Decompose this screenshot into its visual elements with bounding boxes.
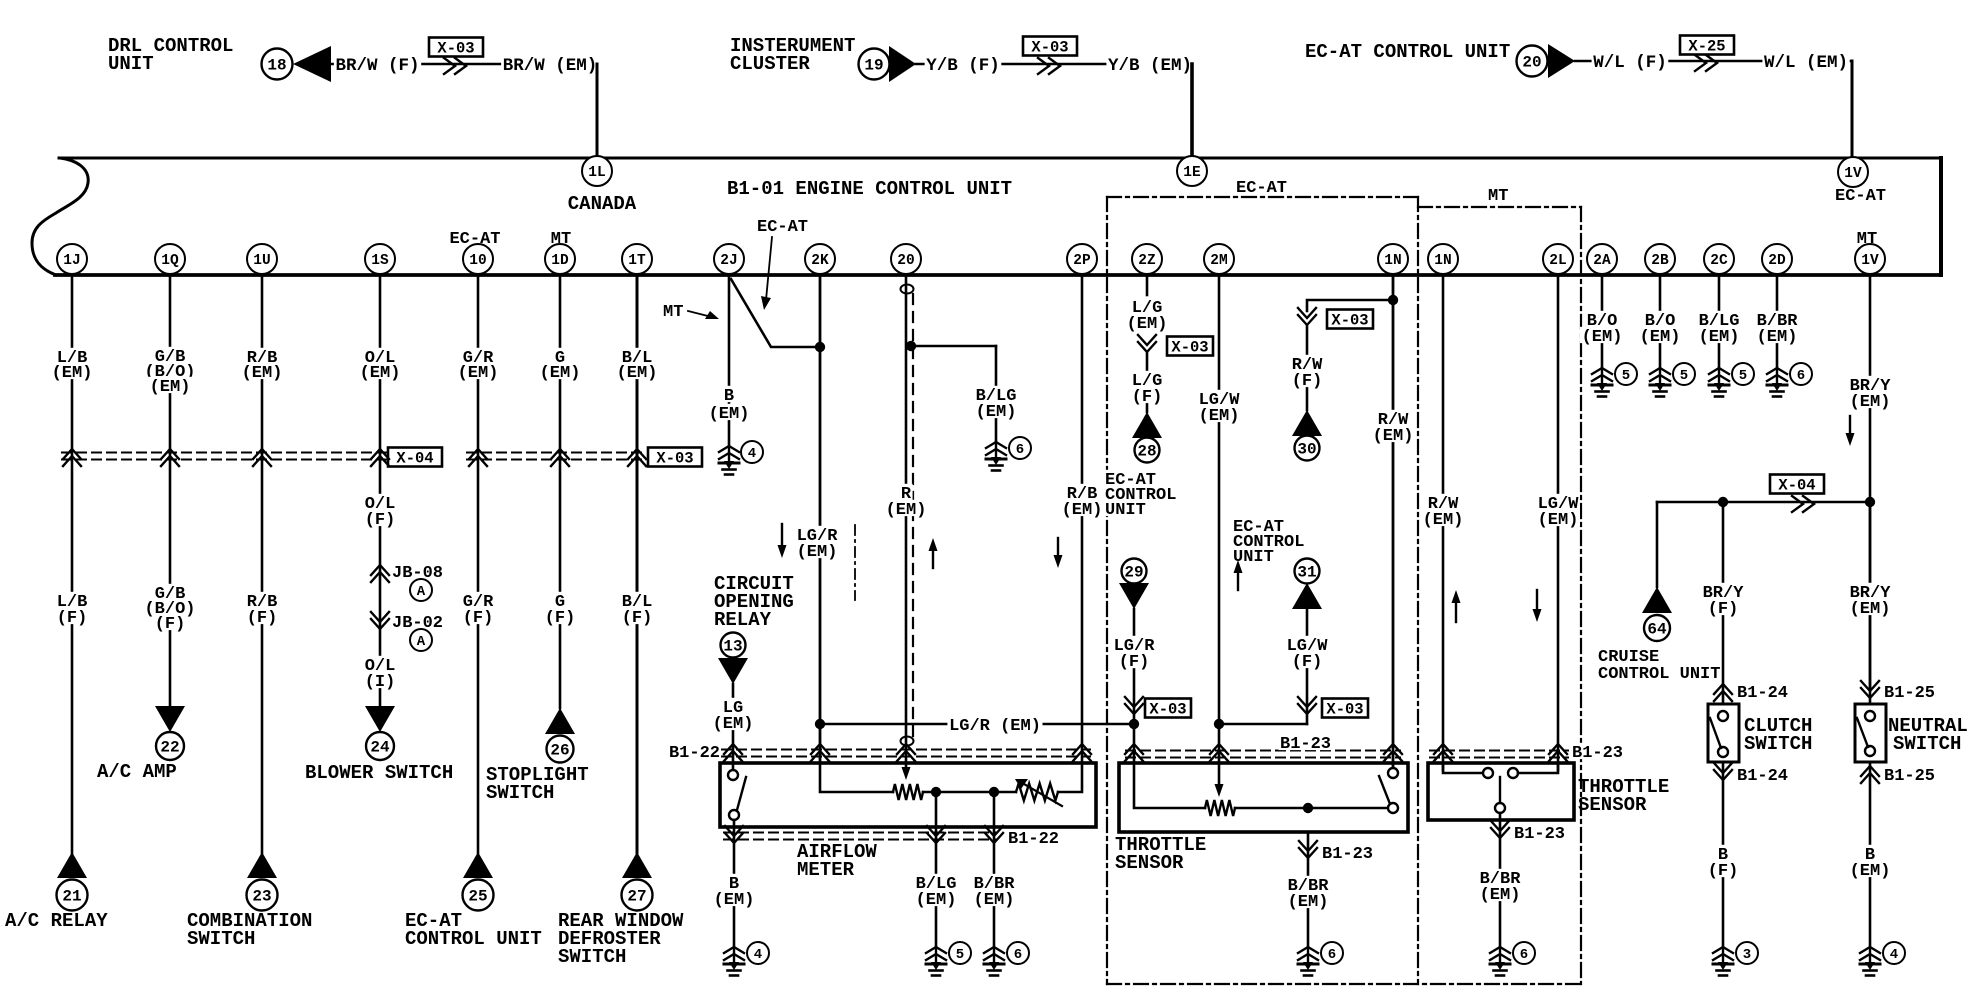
svg-text:(EM): (EM)	[360, 364, 401, 383]
label LG/W (F)	[1285, 636, 1329, 652]
crossing chevron LG/R at X-03	[1125, 697, 1143, 714]
crossing chevron LG at B1-22	[724, 744, 742, 761]
label O/L (F)	[363, 494, 397, 510]
arrowhead to rear window defroster switch (up triangle)	[622, 852, 652, 878]
label R (EM) on wire 20	[899, 484, 912, 500]
wire B/BR below throttle sensor	[1307, 832, 1310, 947]
connector circle 19	[859, 49, 890, 80]
svg-text:B1-23: B1-23	[1280, 735, 1331, 754]
wire R/W (F) segment	[1306, 325, 1309, 410]
arrowhead of wire R pointing at resistor	[902, 767, 911, 780]
svg-text:MT: MT	[1857, 230, 1877, 249]
band right edge	[1939, 158, 1943, 275]
svg-text:Y/B (EM): Y/B (EM)	[1108, 56, 1192, 76]
svg-text:2A: 2A	[1593, 253, 1611, 269]
throttle sensor resistor	[1205, 800, 1235, 816]
ground ref circle 4 (2J)	[741, 441, 763, 463]
connector circle 1L	[582, 156, 612, 186]
connector crossing dashed line B1-22 (upper)	[722, 750, 1090, 757]
label LG/W (EM) on 2M wire	[1197, 390, 1241, 406]
connector circle 1T at x=637	[622, 244, 652, 274]
svg-text:B1-23: B1-23	[1572, 744, 1623, 763]
connector circle 2B at x=1660	[1645, 244, 1675, 274]
connector circle 1Q at x=170	[155, 244, 185, 274]
label W/L (F)	[1592, 52, 1669, 69]
EC-AT region dash-dot box	[1107, 197, 1581, 984]
crossing chevron LG/R at B1-23	[1125, 744, 1143, 761]
label G/R (F)	[461, 592, 495, 608]
crossing chevron at B1-24 (above clutch)	[1714, 684, 1732, 701]
label B (F)	[1716, 845, 1729, 861]
connector circle 2C at x=1719	[1704, 244, 1734, 274]
svg-text:(EM): (EM)	[1288, 893, 1329, 912]
connector circle 2L at x=1558	[1543, 244, 1573, 274]
wire LG to airflow meter switch	[732, 684, 735, 770]
ground ref circle 6 (throttle EC-AT)	[1321, 942, 1343, 964]
label B/L (F)	[620, 592, 654, 608]
connector circle 1N at x=1393	[1378, 244, 1408, 274]
wire below neutral switch	[1869, 762, 1872, 947]
label O/L (I)	[363, 656, 397, 672]
svg-text:20: 20	[1522, 54, 1541, 72]
arrowhead to EC-AT control unit (up triangle, 28)	[1132, 412, 1162, 438]
wire L/G (F) segment	[1146, 352, 1149, 412]
connector circle 1V at x=1870	[1855, 244, 1885, 274]
svg-text:(F): (F)	[1708, 600, 1739, 619]
svg-text:(EM): (EM)	[1423, 511, 1464, 530]
ground symbol (B/LG)	[986, 442, 1006, 471]
direction arrow down (LG/R)	[778, 524, 787, 558]
label LG/R (F)	[1112, 636, 1156, 652]
wire B (MT) from 2J to ground	[728, 275, 731, 446]
connector circle 2M at x=1219	[1204, 244, 1234, 274]
wire W/L from EC-AT control unit to ECU	[1575, 60, 1852, 63]
inline connector chevrons X-04 (right)	[1792, 496, 1814, 512]
svg-text:(F): (F)	[1292, 653, 1323, 672]
svg-text:CONTROL UNIT: CONTROL UNIT	[1598, 665, 1720, 684]
connector circle 20 (EC-AT control unit)	[1517, 46, 1548, 77]
component circle 26	[547, 736, 574, 763]
svg-text:MT: MT	[663, 303, 683, 322]
airflow meter internal wire to 2P	[1058, 764, 1082, 792]
ground symbol (B airflow)	[724, 947, 744, 976]
svg-text:1E: 1E	[1183, 165, 1201, 181]
svg-text:A/C AMP: A/C AMP	[97, 761, 177, 783]
junction dot X-04 tap on 1V wire	[1865, 497, 1875, 507]
crossing chevron at B1-25 (above neutral)	[1861, 681, 1879, 698]
component circle 25	[463, 880, 494, 911]
svg-text:(F): (F)	[1292, 372, 1323, 391]
svg-text:(EM): (EM)	[242, 364, 283, 383]
svg-text:EC-AT: EC-AT	[757, 218, 808, 237]
wire G/R from 10	[477, 275, 480, 853]
svg-text:EC-AT: EC-AT	[1236, 179, 1287, 198]
svg-text:2J: 2J	[720, 253, 737, 269]
svg-text:6: 6	[1520, 947, 1528, 963]
arrowhead to cruise control unit (up triangle)	[1642, 587, 1672, 613]
label MT on region box	[1487, 186, 1511, 202]
MT throttle sensor internal wires and contacts	[1443, 763, 1483, 773]
ground symbol at x=1602	[1592, 368, 1612, 397]
svg-text:2L: 2L	[1549, 253, 1566, 269]
svg-text:X-04: X-04	[1778, 477, 1815, 495]
arrowhead to 31 (up triangle)	[1292, 583, 1322, 609]
ground symbol (B/BR airflow)	[984, 947, 1004, 976]
svg-text:64: 64	[1647, 621, 1667, 639]
component circle 21	[57, 880, 88, 911]
component circle 31	[1295, 559, 1320, 584]
svg-text:CONTROL UNIT: CONTROL UNIT	[405, 928, 542, 950]
svg-text:X-03: X-03	[1149, 701, 1186, 719]
junction dot B/BR tap	[989, 787, 999, 797]
svg-text:2Z: 2Z	[1138, 253, 1156, 269]
direction arrow up (R)	[929, 538, 938, 568]
neutral switch box	[1855, 704, 1886, 762]
svg-text:5: 5	[956, 947, 964, 963]
wire R/W (F) branch	[1307, 300, 1393, 311]
svg-text:25: 25	[468, 888, 487, 906]
ground ref circle 6 (B/LG)	[1009, 437, 1031, 459]
svg-text:X-04: X-04	[396, 450, 433, 468]
label G (F)	[553, 592, 566, 608]
crossing chevron 1T at X-03	[628, 449, 646, 466]
label LG (EM)	[721, 698, 745, 714]
wire O/L from 1S	[379, 275, 382, 706]
svg-text:4: 4	[748, 446, 756, 462]
svg-text:(EM): (EM)	[1373, 427, 1414, 446]
label B1-23 (EC-AT upper)	[1279, 734, 1333, 750]
svg-text:METER: METER	[797, 859, 855, 881]
svg-text:CLUSTER: CLUSTER	[730, 53, 810, 75]
svg-text:EC-AT: EC-AT	[449, 230, 500, 249]
svg-text:(EM): (EM)	[886, 501, 927, 520]
clutch switch box	[1708, 704, 1739, 762]
label G (EM)	[553, 348, 566, 364]
label LG/W (EM) on 2L wire	[1536, 494, 1580, 510]
crossing chevron 1N at B1-23	[1384, 744, 1402, 761]
neutral switch contacts and blade	[1865, 711, 1875, 721]
svg-text:(F): (F)	[155, 615, 186, 634]
component circle 27	[622, 880, 653, 911]
connector X-03 box (cluster)	[1023, 37, 1077, 57]
airflow meter internal wire right of resistor	[923, 791, 1016, 794]
direction arrow down (1V)	[1846, 416, 1855, 446]
crossing chevron B at lower B1-22	[725, 826, 743, 843]
svg-text:6: 6	[1014, 947, 1022, 963]
harness band B1-01 engine control unit outline	[32, 158, 88, 275]
svg-text:BR/W (EM): BR/W (EM)	[503, 56, 598, 76]
horizontal wire BR/Y with X-04	[1657, 501, 1870, 504]
svg-text:5: 5	[1680, 368, 1688, 384]
throttle sensor internal wire right of resistor	[1235, 807, 1388, 810]
ground ref circle 6 (B/BR airflow)	[1007, 942, 1029, 964]
label BR/Y (EM) upper	[1848, 376, 1892, 392]
direction arrow up (2M)	[1234, 560, 1243, 590]
label Y/B (EM)	[1106, 55, 1193, 72]
wire below clutch switch	[1722, 762, 1725, 947]
wire EC-AT diagonal branch from 2J	[731, 279, 820, 347]
svg-text:MT: MT	[551, 230, 571, 249]
connector circle 2D at x=1777	[1762, 244, 1792, 274]
svg-text:5: 5	[1739, 368, 1747, 384]
crossing chevron B/LG at lower B1-22	[927, 826, 945, 843]
label B (EM) below airflow meter	[727, 874, 740, 890]
junction dot BR/Y (F) tap	[1718, 497, 1728, 507]
airflow meter internal wire from 2K	[820, 763, 893, 792]
connector circle 2P at x=1082	[1067, 244, 1097, 274]
svg-text:SENSOR: SENSOR	[1115, 852, 1184, 874]
label L/B (EM)	[55, 348, 89, 364]
svg-text:SENSOR: SENSOR	[1578, 794, 1647, 816]
svg-text:B1-24: B1-24	[1737, 684, 1788, 703]
connector crossing dashed line B1-23 (MT)	[1430, 751, 1568, 758]
junction dot R/W branch on 1N wire	[1388, 295, 1398, 305]
connector X-04 box (right)	[1770, 475, 1824, 495]
arrowhead of wire LG/W pointing at resistor	[1215, 784, 1224, 797]
arrowhead to A/C amp (down triangle)	[155, 706, 185, 732]
crossing chevron 1J at X-04	[63, 449, 81, 466]
crossing chevron 10 at X-03	[469, 449, 487, 466]
svg-text:1T: 1T	[628, 253, 646, 269]
svg-text:(EM): (EM)	[150, 378, 191, 397]
svg-text:1L: 1L	[588, 165, 605, 181]
svg-text:B1-22: B1-22	[669, 744, 720, 763]
svg-text:4: 4	[754, 947, 762, 963]
label LG/R (EM) on 2K wire	[795, 526, 839, 542]
connector circle 2Z at x=1147	[1132, 244, 1162, 274]
wire B/O from connector at x=1602	[1601, 275, 1604, 368]
crossing chevron B/BR at lower B1-22	[985, 826, 1003, 843]
svg-text:B1-01 ENGINE CONTROL UNIT: B1-01 ENGINE CONTROL UNIT	[727, 178, 1012, 200]
label R/B (EM)	[245, 348, 279, 364]
wire G from 1D	[559, 275, 562, 708]
ground ref circle 6 at x=1777	[1790, 363, 1812, 385]
label R/W (EM) on 1N wire	[1376, 410, 1410, 426]
svg-text:(EM): (EM)	[1699, 328, 1740, 347]
connector crossing dashed line X-03 (left)	[467, 453, 647, 460]
variable resistor arrow	[1015, 779, 1062, 806]
svg-text:30: 30	[1297, 441, 1316, 459]
svg-text:13: 13	[723, 638, 742, 656]
svg-text:(EM): (EM)	[1480, 886, 1521, 905]
svg-text:X-03: X-03	[437, 40, 474, 58]
junction dot B/LG tap	[931, 787, 941, 797]
wire B/LG from connector at x=1719	[1718, 275, 1721, 368]
svg-text:(F): (F)	[545, 609, 576, 628]
wire to B/LG ground	[911, 345, 996, 348]
junction dot LG/R (EM) tap	[815, 719, 825, 729]
ground ref circle 5 at x=1719	[1732, 363, 1754, 385]
crossing chevron 20 at B1-22	[897, 744, 915, 761]
wire L/B from 1J	[71, 275, 74, 853]
connector X-03 box (LG/W)	[1322, 699, 1368, 719]
arrowhead from circuit opening relay (down triangle)	[718, 658, 748, 684]
ground symbol at x=1777	[1767, 368, 1787, 397]
arrowhead to 30 (up triangle)	[1292, 410, 1322, 436]
label B/LG (EM)	[974, 386, 1018, 402]
label R/B (EM) on wire 2P	[1065, 484, 1099, 500]
ground ref circle 3 (clutch)	[1736, 942, 1758, 964]
arrowhead to stoplight switch (up triangle)	[545, 708, 575, 734]
airflow meter switch contacts and blade	[728, 770, 738, 780]
ground symbol (2J)	[719, 446, 739, 475]
svg-text:19: 19	[864, 57, 883, 75]
wire LG/W (F) from 31	[1306, 609, 1309, 724]
airflow meter variable resistor	[1016, 784, 1058, 801]
wire R/W from 1N into throttle sensor switch	[1392, 275, 1395, 770]
horizontal wire LG/R (EM)	[820, 723, 1134, 726]
svg-text:28: 28	[1137, 443, 1156, 461]
label G/B (B/O) (F)	[153, 584, 187, 600]
label G/B (B/O) (EM)	[153, 347, 187, 363]
svg-text:(F): (F)	[1708, 862, 1739, 881]
svg-text:1U: 1U	[253, 253, 270, 269]
svg-text:6: 6	[1797, 368, 1805, 384]
svg-text:X-03: X-03	[1331, 312, 1368, 330]
svg-text:1N: 1N	[1384, 253, 1401, 269]
connector circle 1S at x=380	[365, 244, 395, 274]
svg-text:(EM): (EM)	[1850, 600, 1891, 619]
label BR/W (EM)	[501, 55, 599, 72]
wire B/L from 1T	[636, 275, 639, 853]
label L/B (F)	[55, 592, 89, 608]
ground ref circle 4 (neutral)	[1883, 942, 1905, 964]
svg-text:5: 5	[1622, 368, 1630, 384]
throttle sensor internal wire from LG/R	[1134, 763, 1205, 808]
connector crossing dashed line B1-22 (lower)	[724, 833, 997, 840]
arrowhead to A/C relay (up triangle)	[57, 852, 87, 878]
circled A (JB-02)	[410, 629, 432, 651]
junction dot LG/W join on 2M wire	[1214, 719, 1224, 729]
connector X-03 box (2Z)	[1167, 337, 1213, 357]
wire G/B from 1Q	[169, 275, 172, 706]
connector circle 1N at x=1443	[1428, 244, 1458, 274]
crossing chevron 1Q at X-04	[161, 449, 179, 466]
svg-text:(F): (F)	[463, 609, 494, 628]
svg-text:(EM): (EM)	[713, 715, 754, 734]
label EC-AT CONTROL UNIT (mid left)	[1104, 470, 1158, 486]
svg-text:24: 24	[370, 739, 390, 757]
svg-text:(F): (F)	[1119, 653, 1150, 672]
wire R/B from 2P into airflow meter	[1081, 275, 1084, 763]
svg-text:(EM): (EM)	[916, 891, 957, 910]
svg-text:X-03: X-03	[1326, 701, 1363, 719]
svg-text:MT: MT	[1488, 187, 1508, 206]
svg-text:A: A	[417, 634, 426, 650]
svg-text:B1-22: B1-22	[1008, 830, 1059, 849]
arrowhead to EC-AT control unit (up triangle)	[463, 852, 493, 878]
connector circle 2A at x=1602	[1587, 244, 1617, 274]
label B/BR (EM) at x=1777	[1755, 311, 1799, 327]
junction dot B/BR tap (throttle)	[1303, 803, 1313, 813]
connector circle 2K at x=820	[805, 244, 835, 274]
ground symbol (throttle MT)	[1490, 947, 1510, 976]
label BR/W (F)	[334, 55, 421, 72]
wire B below airflow meter switch	[733, 820, 736, 947]
inline connector chevrons (cluster wire)	[1038, 58, 1060, 74]
svg-text:1V: 1V	[1861, 253, 1879, 269]
svg-text:3: 3	[1743, 947, 1751, 963]
label B (EM)	[1863, 845, 1876, 861]
svg-text:(EM): (EM)	[1582, 328, 1623, 347]
ground symbol (throttle EC-AT)	[1298, 947, 1318, 976]
svg-text:UNIT: UNIT	[1105, 501, 1146, 520]
svg-text:(F): (F)	[247, 609, 278, 628]
arrowhead into 18 (left-pointing triangle)	[293, 46, 331, 82]
svg-text:B1-25: B1-25	[1884, 684, 1935, 703]
svg-text:(EM): (EM)	[458, 364, 499, 383]
wire stub from 2Z	[1146, 275, 1149, 295]
MT throttle switch blade and bottom contact	[1499, 777, 1501, 803]
airflow meter box	[720, 763, 1096, 827]
wire BR/Y (EM) to neutral switch	[1869, 502, 1872, 704]
svg-text:X-03: X-03	[1031, 39, 1068, 57]
junction dot LG/R (EM) join	[1129, 719, 1139, 729]
label B/LG (EM) at x=1719	[1697, 311, 1741, 327]
label B/BR (EM) below airflow meter	[972, 874, 1016, 890]
svg-text:2K: 2K	[811, 253, 829, 269]
svg-text:(EM): (EM)	[1640, 328, 1681, 347]
svg-text:1V: 1V	[1844, 166, 1862, 182]
arrowhead to blower switch (down triangle)	[365, 706, 395, 732]
svg-text:(EM): (EM)	[797, 543, 838, 562]
svg-text:SWITCH: SWITCH	[558, 946, 626, 968]
connector circle 2J at x=729	[714, 244, 744, 274]
connector X-25 box	[1680, 36, 1734, 56]
connector crossing dashed line X-04	[62, 453, 387, 460]
crossing chevron 1N MT at B1-23	[1434, 744, 1452, 761]
wire R/B from 1U	[261, 275, 264, 853]
svg-text:21: 21	[62, 888, 81, 906]
arrowhead from 29 (down triangle)	[1119, 583, 1149, 609]
horizontal wire LG/W join to 2M	[1219, 723, 1307, 726]
svg-text:EC-AT: EC-AT	[1835, 187, 1886, 206]
connector circle 1U at x=262	[247, 244, 277, 274]
svg-text:X-03: X-03	[656, 450, 693, 468]
svg-text:(EM): (EM)	[1850, 393, 1891, 412]
wire B/BR below MT throttle sensor	[1499, 813, 1502, 947]
wire LG/W from 2L into MT throttle sensor	[1557, 275, 1560, 770]
wire LG/W from 2M into throttle sensor	[1218, 275, 1221, 784]
svg-text:B1-24: B1-24	[1737, 767, 1788, 786]
ground symbol at x=1660	[1650, 368, 1670, 397]
connector X-03 box (left)	[648, 448, 702, 468]
wire W/L (EM) drop to 1V	[1851, 61, 1854, 157]
crossing chevron 1U at X-04	[253, 449, 271, 466]
label BR/Y (F)	[1701, 583, 1745, 599]
svg-text:1N: 1N	[1434, 253, 1451, 269]
svg-text:(F): (F)	[365, 511, 396, 530]
label LG/R (EM) on horizontal wire	[947, 716, 1042, 732]
svg-text:RELAY: RELAY	[714, 609, 772, 631]
ground ref circle 5 at x=1602	[1615, 363, 1637, 385]
label W/L (EM)	[1762, 52, 1849, 69]
svg-text:31: 31	[1297, 564, 1316, 582]
connector circle 1V (top)	[1838, 157, 1868, 187]
svg-text:18: 18	[267, 57, 286, 75]
wire Y/B (EM) drop to 1E	[1190, 64, 1194, 157]
wire B/BR below airflow meter	[993, 792, 996, 947]
svg-text:22: 22	[160, 739, 179, 757]
label L/G (F)	[1130, 371, 1164, 387]
svg-text:B: B	[724, 387, 734, 406]
svg-text:SWITCH: SWITCH	[187, 928, 255, 950]
svg-text:SWITCH: SWITCH	[1893, 733, 1961, 755]
direction arrow down (2L)	[1533, 590, 1542, 622]
label Y/B (F)	[925, 55, 1002, 72]
svg-text:(EM): (EM)	[617, 364, 658, 383]
component circle 29	[1122, 559, 1147, 584]
